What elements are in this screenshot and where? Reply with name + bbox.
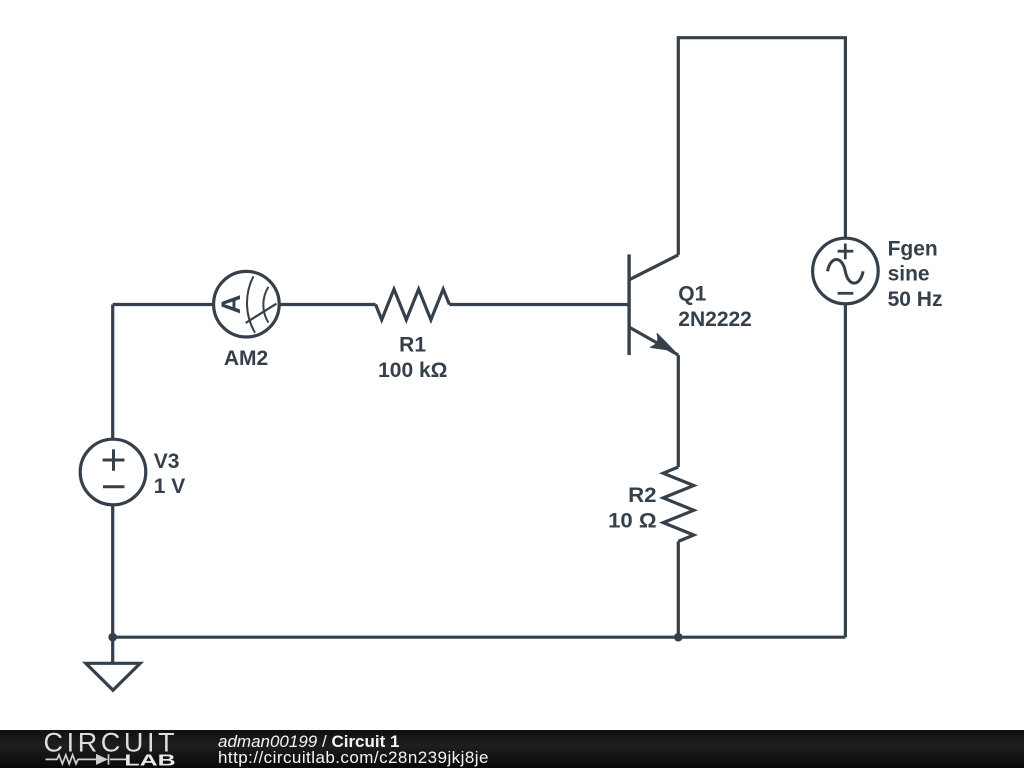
svg-text:R2: R2 (628, 484, 657, 507)
svg-text:Fgen: Fgen (888, 237, 938, 260)
node junction right (674, 633, 683, 642)
svg-text:Q1: Q1 (678, 282, 706, 305)
ammeter AM2 (214, 271, 280, 337)
resistor R1 (376, 289, 450, 320)
svg-text:LAB: LAB (124, 752, 175, 768)
voltage source V3 (80, 439, 146, 505)
wire Fgen bottom down (844, 304, 847, 637)
footer bar (0, 730, 1024, 768)
wire bottom rail (113, 636, 846, 639)
wire left vertical to V3 (111, 305, 114, 440)
wire R1 to Q1 base (449, 303, 629, 306)
wire emitter to R2 (677, 355, 680, 467)
wire R2 to bottom rail (677, 541, 680, 637)
wire V3 bottom to ground (111, 505, 114, 664)
wire ammeter to R1 (279, 303, 375, 306)
wire collector to top rail to Fgen (678, 38, 845, 255)
footer text (217, 0, 219, 1)
svg-text:sine: sine (888, 263, 930, 286)
function generator Fgen (813, 238, 879, 304)
svg-text:50 Hz: 50 Hz (888, 288, 943, 311)
resistor R2 (663, 467, 694, 541)
svg-text:2N2222: 2N2222 (678, 308, 752, 331)
wire base-left horizontal (113, 303, 214, 306)
svg-text:100 kΩ: 100 kΩ (378, 359, 447, 382)
ground (86, 663, 140, 690)
svg-text:R1: R1 (399, 334, 426, 357)
svg-text:10 Ω: 10 Ω (608, 509, 657, 532)
CircuitLab logo (0, 0, 200, 768)
svg-text:A: A (216, 294, 246, 314)
node junction left (108, 633, 117, 642)
svg-text:AM2: AM2 (224, 347, 268, 370)
transistor Q1 (629, 254, 678, 355)
